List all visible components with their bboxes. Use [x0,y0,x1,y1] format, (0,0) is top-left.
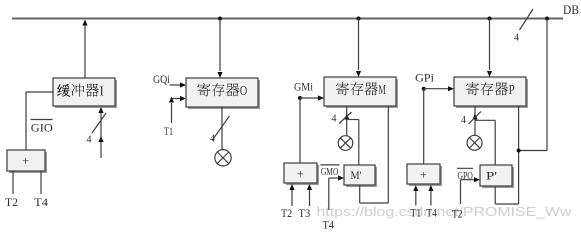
wire register P to P' feedback [518,106,520,204]
svg-text:4: 4 [332,114,337,125]
lamp P [467,135,482,150]
wire T2 input M [291,190,293,206]
wire buffer I left to GIO [26,91,53,93]
svg-text:+: + [22,153,29,168]
svg-text:I: I [99,84,104,99]
register M box [326,79,398,108]
svg-text:T1: T1 [411,208,422,220]
wire T1 to register O [171,103,173,123]
adder box M (+) [286,165,319,185]
svg-text:https://blog.csdn.net/PROMISE_: https://blog.csdn.net/PROMISE_Ww [317,204,573,219]
adder box I (+) [9,152,47,173]
wire GQi to register O [170,84,181,86]
svg-text:+: + [297,167,304,181]
wire register P bottom output [474,106,476,136]
bus width slash 4 [520,9,534,30]
node GPO label [457,167,473,169]
lamp O [215,150,231,166]
node bus-regO junction [218,17,222,21]
node GIO label [31,119,53,121]
wire T2 input I [12,171,14,194]
wire register M bottom output [346,106,348,136]
wire T4 input I [40,171,42,194]
wire bus to register P [489,19,491,71]
wire buffer I bottom 4-bit input [100,112,102,158]
svg-text:M: M [378,82,386,97]
svg-text:+: + [420,168,427,182]
register M' box [346,167,377,187]
wire T1 input P [415,191,417,206]
svg-text:T2: T2 [5,197,18,209]
svg-text:T4: T4 [34,197,48,209]
node bus-right junction [545,17,549,21]
node GMO label [321,164,340,166]
lamp M [338,136,353,151]
svg-text:T2: T2 [452,209,463,221]
svg-text:GQi: GQi [153,74,170,86]
wire T4 input P [430,191,432,206]
svg-text:T2: T2 [281,208,292,220]
wire GPi down to adder P [423,89,425,164]
svg-text:O: O [240,83,248,98]
wire register M to M' feedback [387,106,389,203]
node bus-regP junction [488,17,492,21]
svg-text:P': P' [486,171,497,183]
svg-text:4: 4 [210,134,215,145]
adder box P (+) [409,166,442,186]
wire buffer I to bus [84,25,86,78]
bus DB [12,18,563,20]
wire bus to register O [219,19,221,72]
wire GMi to register M [298,96,302,100]
wire register O bottom 4-bit output [221,107,223,150]
register O box [188,80,260,109]
svg-text:GIO: GIO [31,123,53,135]
wire T4/GMO to M' [328,178,330,210]
buffer I box [55,80,117,108]
wire T3 input M [309,190,311,206]
svg-text:T3: T3 [298,208,310,220]
wire branch to P' [475,119,495,121]
wire GPi to register P [422,87,426,91]
wire GMi down to adder M [299,98,301,163]
svg-text:M': M' [351,170,362,182]
wire bus to register M [358,19,360,71]
svg-text:4: 4 [461,115,466,126]
svg-text:GMO: GMO [321,166,339,178]
register P box [456,79,528,108]
svg-text:GMi: GMi [294,82,313,94]
svg-text:P: P [509,82,515,97]
svg-text:GPi: GPi [415,73,434,85]
svg-text:T4: T4 [426,208,437,220]
svg-text:4: 4 [514,33,519,44]
register P' box [482,167,514,188]
svg-text:4: 4 [87,135,92,146]
svg-text:T1: T1 [164,126,173,138]
svg-text:DB: DB [563,2,579,17]
wire branch to M' [347,119,359,121]
wire DB tap to P node [546,19,548,151]
wire T2/GPO to P' [460,180,462,204]
svg-text:T4: T4 [323,220,335,232]
node bus-regM junction [357,17,361,21]
